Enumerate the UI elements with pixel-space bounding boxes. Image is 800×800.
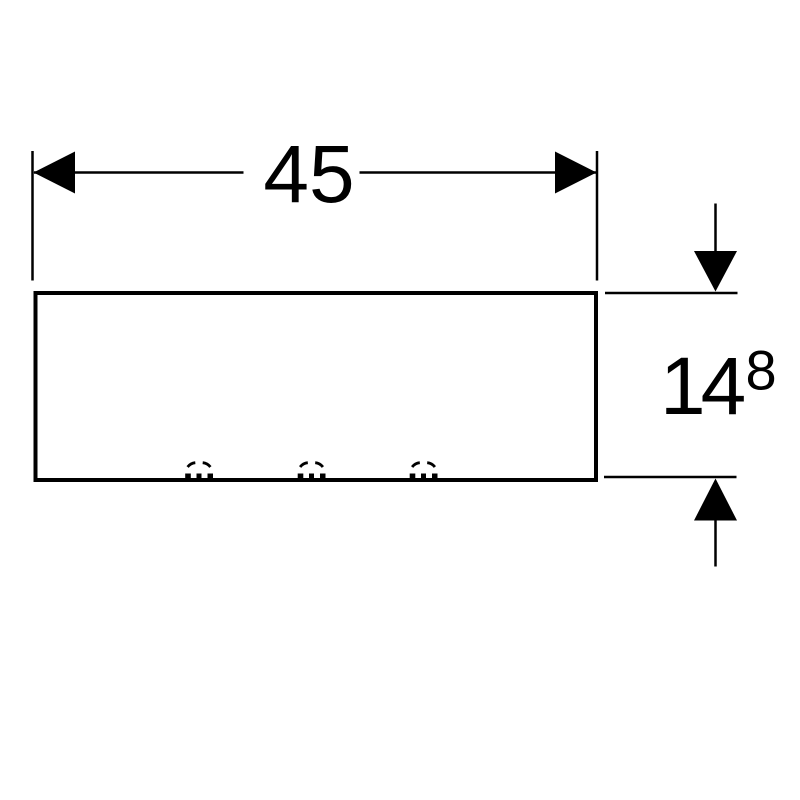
- lower arrow stem: [714, 517, 717, 567]
- svg-text:14: 14: [660, 341, 745, 432]
- dashed clip detail 1: [188, 463, 211, 467]
- extension line right (width dim): [596, 151, 599, 281]
- upper arrowhead (down): [694, 251, 737, 292]
- arrowhead left: [34, 152, 76, 194]
- upper arrow stem: [714, 204, 717, 256]
- dashed clip detail 2: [300, 463, 323, 467]
- dashed clip detail 3: [412, 463, 435, 467]
- extension line left (width dim): [31, 151, 34, 281]
- extension line bottom (height dim): [604, 476, 737, 479]
- lower arrowhead (up): [694, 479, 737, 521]
- cabinet outline: [36, 293, 597, 480]
- arrowhead right: [555, 152, 597, 194]
- svg-text:8: 8: [746, 339, 777, 402]
- extension line top (height dim): [605, 292, 738, 295]
- dimension line right segment: [360, 171, 597, 174]
- dimension line left segment: [34, 171, 244, 174]
- svg-text:45: 45: [263, 129, 354, 220]
